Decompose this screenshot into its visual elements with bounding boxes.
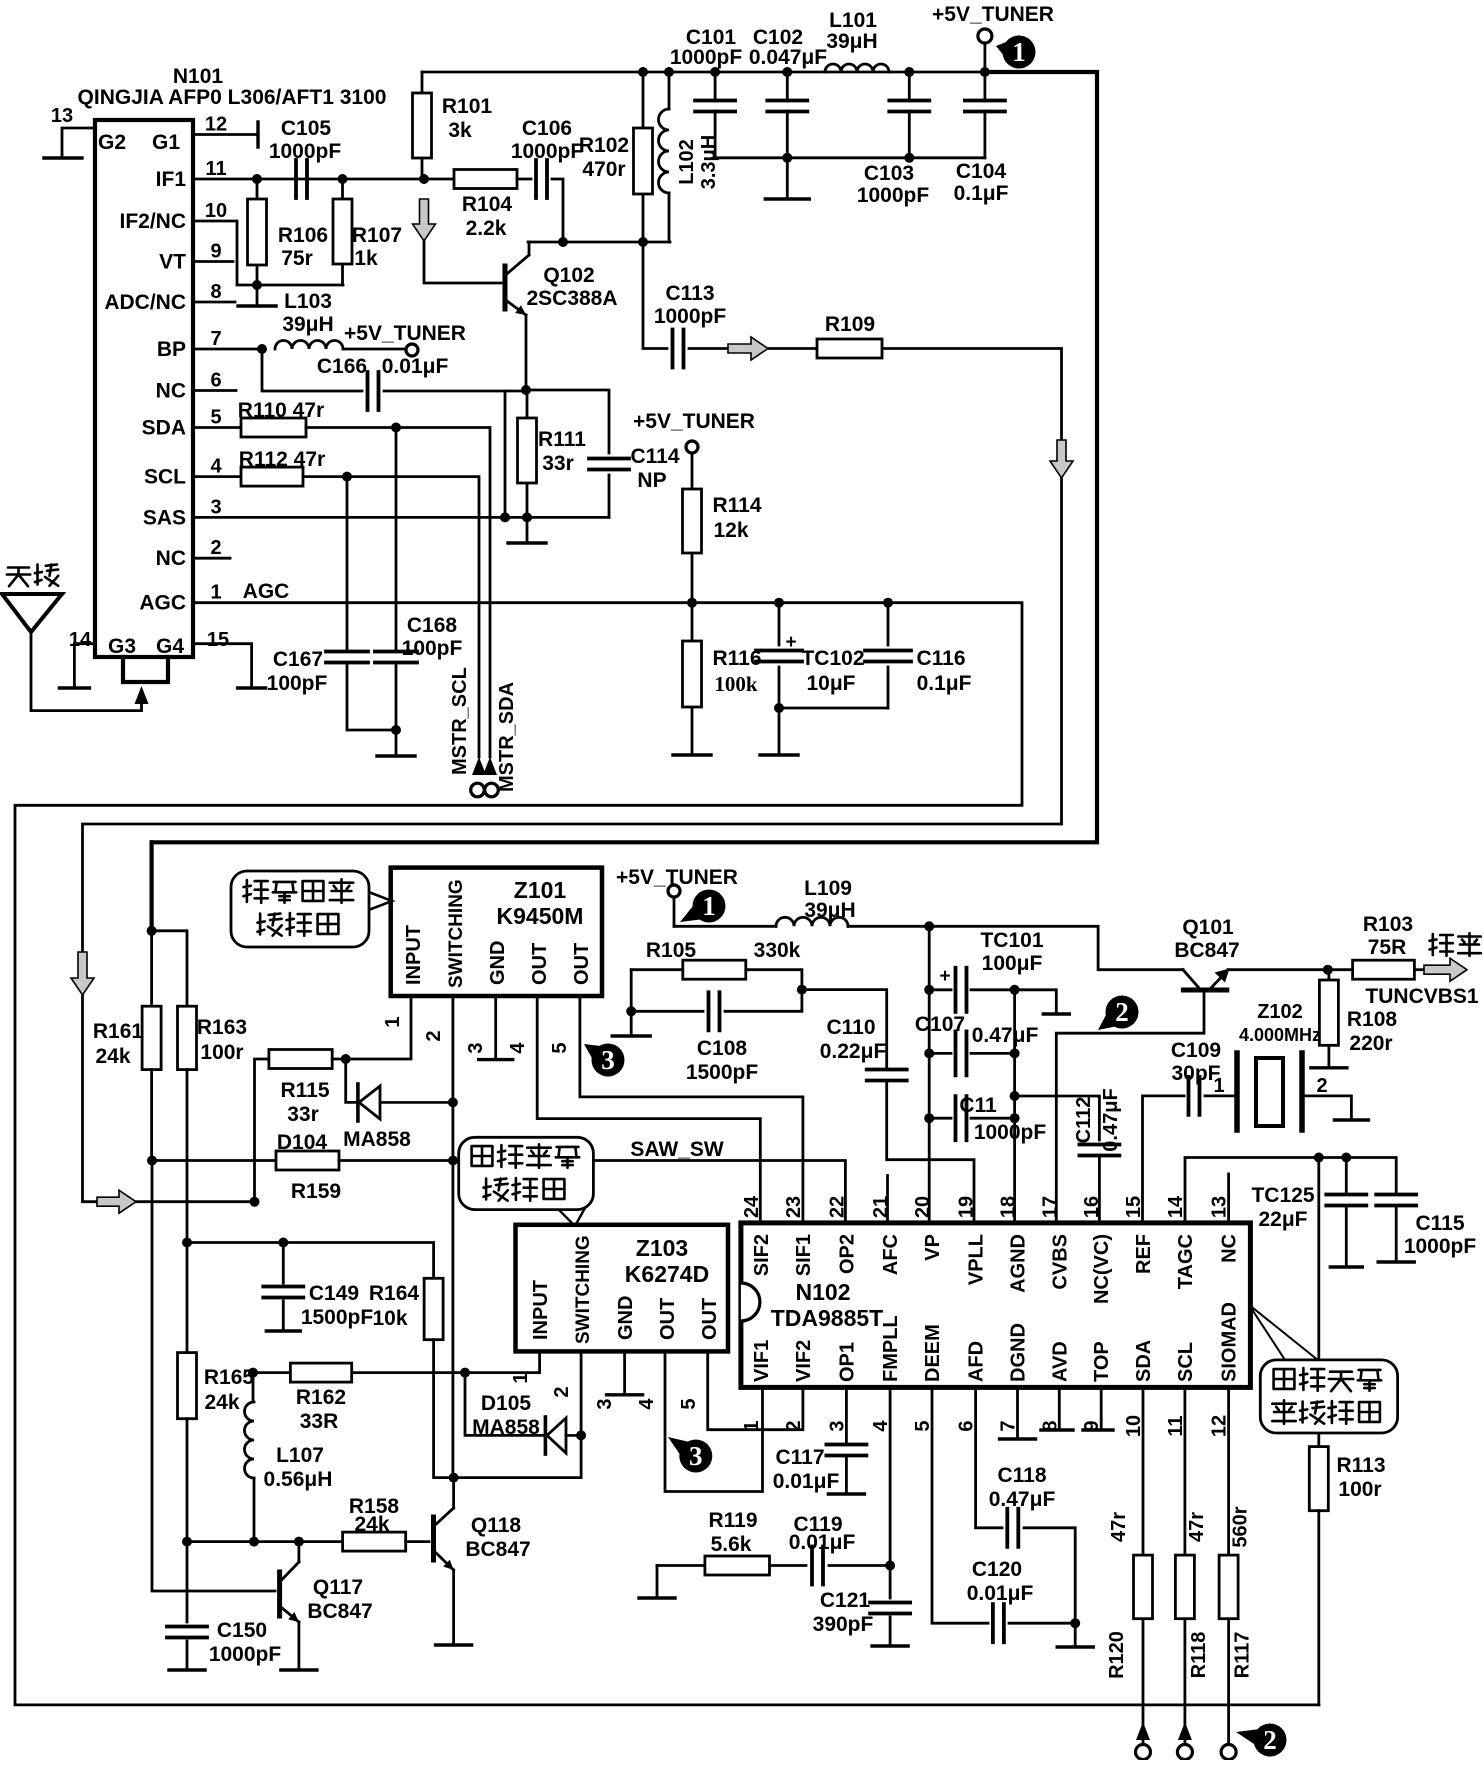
wire DGND pin7 <box>1016 1387 1019 1438</box>
svg-text:16: 16 <box>1081 1196 1103 1218</box>
wire C11 leads <box>929 1117 1014 1120</box>
node C106 branch <box>558 237 568 247</box>
svg-text:24: 24 <box>741 1195 763 1218</box>
svg-text:N102: N102 <box>796 1279 851 1305</box>
capacitor C106 <box>536 160 547 198</box>
wire to R159 <box>152 1159 276 1162</box>
svg-text:3: 3 <box>210 496 221 518</box>
wire to C112 <box>1015 1096 1100 1140</box>
svg-text:12: 12 <box>205 114 227 136</box>
node Q117 collector <box>294 1537 304 1547</box>
svg-text:0.047μF: 0.047μF <box>749 46 827 69</box>
svg-text:R118: R118 <box>1188 1632 1210 1679</box>
svg-text:OUT: OUT <box>699 1298 721 1340</box>
svg-text:5.6k: 5.6k <box>711 1533 752 1556</box>
node Q118 collector <box>449 1473 459 1483</box>
svg-text:0.47μF: 0.47μF <box>1100 1088 1122 1151</box>
wire C149 top <box>282 1243 285 1284</box>
wire pin12 <box>193 133 258 136</box>
svg-text:MSTR_SDA: MSTR_SDA <box>496 682 518 792</box>
svg-text:G4: G4 <box>156 635 184 658</box>
svg-text:19: 19 <box>956 1196 978 1218</box>
svg-text:100r: 100r <box>1338 1478 1381 1501</box>
wire Q117 collector <box>297 1542 300 1562</box>
transistor Q118 BC847 <box>434 1508 454 1570</box>
svg-text:C105: C105 <box>281 117 332 140</box>
svg-text:VPLL: VPLL <box>966 1234 988 1285</box>
svg-text:+5V_TUNER: +5V_TUNER <box>616 866 738 889</box>
wire +5V stub <box>673 897 676 926</box>
node R115/D104 diode <box>341 1054 351 1064</box>
wire SDA to MSTR_SDA <box>306 428 490 758</box>
callout bubble 伴音中频滤波器 <box>231 871 392 947</box>
wire Z101 pin2 switching net <box>451 996 454 1478</box>
svg-text:1k: 1k <box>354 247 378 270</box>
ground R116 <box>673 753 711 756</box>
resistor R113 <box>1309 1447 1328 1511</box>
node AGND-C107 <box>1010 1048 1020 1058</box>
svg-text:R117: R117 <box>1232 1632 1254 1679</box>
svg-text:1: 1 <box>1012 37 1026 67</box>
wire R109 net <box>768 349 1062 825</box>
svg-text:R109: R109 <box>825 313 875 336</box>
svg-text:8: 8 <box>210 281 221 303</box>
wire C104 leads <box>984 72 987 158</box>
crystal Z102 4.000MHz <box>1237 1053 1302 1130</box>
svg-text:47r: 47r <box>1108 1512 1130 1542</box>
video output arrow <box>1424 958 1467 981</box>
svg-text:BC847: BC847 <box>307 1600 372 1623</box>
svg-text:QINGJIA AFP0 L306/AFT1 3100: QINGJIA AFP0 L306/AFT1 3100 <box>78 86 387 109</box>
svg-text:SCL: SCL <box>144 466 186 489</box>
callout bubble 图像中频滤波器 <box>459 1137 594 1226</box>
capacitor C101 <box>695 101 735 112</box>
capacitor TC102 electrolytic <box>756 651 802 662</box>
node R103/R108 <box>1323 965 1333 975</box>
svg-text:2: 2 <box>423 1030 445 1041</box>
svg-text:15: 15 <box>207 629 229 651</box>
svg-text:9: 9 <box>210 241 221 263</box>
wire to R161 <box>150 931 153 1006</box>
svg-text:R108: R108 <box>1347 1008 1398 1031</box>
inductor L102 <box>659 109 670 193</box>
svg-text:0.47μF: 0.47μF <box>972 1024 1039 1047</box>
svg-text:10μF: 10μF <box>806 672 855 695</box>
wire pin9 VT stub <box>193 260 233 263</box>
svg-text:1000pF: 1000pF <box>974 1121 1047 1144</box>
svg-text:75R: 75R <box>1368 936 1407 959</box>
capacitor C107 <box>956 1031 967 1075</box>
svg-text:4: 4 <box>636 1398 658 1410</box>
node SAW_SW / Z101 switching <box>448 1156 458 1166</box>
ground Q117 <box>281 1668 317 1671</box>
wire to C113 <box>643 242 667 349</box>
wire R101 leads <box>421 72 424 179</box>
svg-text:R165: R165 <box>204 1366 255 1389</box>
wire to +5V terminal <box>343 348 406 351</box>
capacitor C104 <box>965 101 1005 112</box>
svg-text:Z103: Z103 <box>636 1235 688 1261</box>
svg-text:R107: R107 <box>352 224 402 247</box>
svg-text:C104: C104 <box>956 160 1007 183</box>
svg-text:C120: C120 <box>972 1558 1022 1581</box>
wire C119 to FMPLL <box>829 1564 890 1567</box>
node L107 bottom <box>249 1537 259 1547</box>
wire C102 leads <box>786 72 789 158</box>
svg-text:3: 3 <box>594 1398 616 1409</box>
svg-text:TOP: TOP <box>1091 1341 1113 1382</box>
svg-text:R113: R113 <box>1336 1454 1385 1477</box>
svg-text:17: 17 <box>1039 1196 1061 1218</box>
wire +5V branch left <box>150 842 154 931</box>
svg-text:SDA: SDA <box>1133 1340 1155 1382</box>
ground R106 node <box>238 304 276 307</box>
svg-text:AGND: AGND <box>1008 1234 1030 1293</box>
terminal bar AVD <box>1041 1428 1073 1431</box>
node SDA-C168 <box>391 423 401 433</box>
node bottom-C102 <box>782 153 792 163</box>
wire AGC routing loop <box>15 603 1319 1705</box>
ground TC101 node <box>1043 1012 1069 1015</box>
wire C110 to N102 VPLL pin19 <box>887 1082 974 1223</box>
wire filter bottom node <box>715 156 985 159</box>
wire C112 to NC(VC) pin16 <box>1098 1158 1101 1223</box>
svg-text:1: 1 <box>1213 1075 1224 1097</box>
svg-text:R112 47r: R112 47r <box>239 448 325 471</box>
svg-text:C150: C150 <box>217 1619 267 1642</box>
wire pin2 NC stub <box>193 557 230 560</box>
ground Z101 pin3 <box>479 1058 513 1061</box>
svg-text:1000pF: 1000pF <box>857 184 930 207</box>
svg-text:3: 3 <box>465 1042 487 1053</box>
resistor R110 <box>241 418 306 437</box>
svg-text:470r: 470r <box>582 158 625 181</box>
wire Z103 pin2 SWITCHING <box>454 1351 581 1477</box>
inductor L101 <box>825 64 889 72</box>
resistor R107 <box>333 199 352 264</box>
svg-text:TAGC: TAGC <box>1175 1234 1197 1289</box>
svg-text:330k: 330k <box>754 939 801 962</box>
wire Z103 pin4 to N102 VIF1 <box>665 1351 763 1491</box>
+5V_TUNER terminal <box>978 29 992 43</box>
node IF1-R106 <box>252 174 262 184</box>
svg-text:L103: L103 <box>284 290 332 313</box>
wire L109 to Q101 collector <box>848 926 1183 969</box>
svg-text:R103: R103 <box>1363 913 1413 936</box>
wire +5V to L109 <box>674 925 776 928</box>
svg-text:0.01μF: 0.01μF <box>773 1470 840 1493</box>
svg-text:14: 14 <box>69 629 92 651</box>
svg-text:AFD: AFD <box>966 1341 988 1382</box>
ground R119 <box>639 1596 675 1599</box>
wire C101 leads <box>714 72 717 158</box>
arrow into tuner input <box>135 686 149 704</box>
wire C121 bottom <box>889 1617 892 1645</box>
resistor R108 <box>1319 980 1338 1045</box>
ground R108 <box>1311 1066 1347 1069</box>
svg-text:R111: R111 <box>538 428 586 451</box>
svg-text:OP2: OP2 <box>836 1234 858 1274</box>
wire to ground <box>1074 1623 1077 1646</box>
svg-text:2: 2 <box>1115 997 1129 1027</box>
capacitor C116 <box>865 651 911 662</box>
wire R119 left <box>657 1564 705 1567</box>
wire +5V thick routing <box>152 72 1097 842</box>
svg-text:INPUT: INPUT <box>403 925 425 985</box>
svg-text:C103: C103 <box>864 162 914 185</box>
terminal R118 net <box>1177 1745 1192 1760</box>
svg-text:1: 1 <box>510 1372 532 1383</box>
node R102/C113 branch <box>638 237 648 247</box>
svg-text:2.2k: 2.2k <box>466 217 507 240</box>
wire Z103 pin3 <box>623 1351 626 1393</box>
svg-text:R101: R101 <box>442 95 493 118</box>
wire to ground <box>786 158 789 199</box>
svg-text:0.47μF: 0.47μF <box>989 1488 1056 1511</box>
signal arrow right <box>728 337 768 360</box>
node SAS-C166branch <box>500 512 510 522</box>
ground C117 <box>828 1492 864 1495</box>
wire C117 bottom <box>845 1458 848 1493</box>
capacitor TC125 <box>1326 1195 1366 1206</box>
wire C116 leads <box>887 603 890 708</box>
svg-text:3.3μH: 3.3μH <box>698 135 720 189</box>
label 视频 <box>1430 933 1481 956</box>
resistor R114 <box>683 489 702 553</box>
svg-text:Q102: Q102 <box>543 264 594 287</box>
svg-text:R106: R106 <box>278 224 328 247</box>
label 中频信号 <box>1274 1368 1382 1391</box>
svg-text:39μH: 39μH <box>282 313 333 336</box>
inductor L107 <box>245 1402 254 1478</box>
svg-text:L101: L101 <box>829 9 877 32</box>
wire R164 bottom <box>434 1340 454 1478</box>
wire C149 bottom <box>282 1301 285 1330</box>
node R161/R159 <box>147 1156 157 1166</box>
terminal bar TOP <box>1083 1428 1113 1431</box>
svg-text:Q101: Q101 <box>1182 916 1234 939</box>
wire pin13 <box>62 128 95 158</box>
svg-text:R114: R114 <box>712 494 761 517</box>
svg-text:BC847: BC847 <box>1174 939 1239 962</box>
inductor L103 <box>275 341 343 350</box>
node R105/C108 <box>797 985 807 995</box>
svg-text:1000pF: 1000pF <box>654 305 727 328</box>
node rail-R102 <box>638 67 648 77</box>
svg-text:20: 20 <box>912 1196 934 1218</box>
capacitor TC101 <box>956 968 967 1012</box>
node C118/C120 <box>1070 1618 1080 1628</box>
svg-text:C166: C166 <box>317 355 367 378</box>
resistor R111 <box>518 418 537 483</box>
svg-text:390pF: 390pF <box>813 1613 874 1636</box>
wire TC101 leads <box>929 988 1014 991</box>
wire pin15 <box>193 644 252 688</box>
wire L102 leads <box>668 72 671 242</box>
svg-text:OUT: OUT <box>529 943 551 985</box>
tuner input connector below G3/G4 <box>123 657 168 682</box>
svg-text:TDA9885T: TDA9885T <box>771 1305 883 1331</box>
svg-text:4.000MHz: 4.000MHz <box>1239 1025 1321 1045</box>
resistor R105 <box>683 960 746 979</box>
svg-text:G1: G1 <box>152 131 180 154</box>
node rail-C104 <box>980 67 990 77</box>
ground C115 <box>1378 1260 1414 1263</box>
svg-text:SAW_SW: SAW_SW <box>630 1138 724 1161</box>
svg-text:2: 2 <box>551 1386 573 1397</box>
capacitor C11 <box>956 1096 967 1140</box>
svg-text:FMPLL: FMPLL <box>880 1315 902 1382</box>
svg-text:2: 2 <box>210 537 221 559</box>
node INPUT-D105 <box>460 1368 470 1378</box>
svg-text:C106: C106 <box>522 117 572 140</box>
wire bottom node <box>779 707 888 710</box>
wire R111 leads <box>526 390 529 543</box>
node rail-L102 <box>664 67 674 77</box>
wire R119 to ground <box>656 1566 659 1598</box>
wire DEEM pin5 to C120 <box>932 1387 988 1623</box>
node FMPLL-C119 <box>885 1561 895 1571</box>
svg-text:12k: 12k <box>713 519 748 542</box>
resistor R158 <box>343 1532 406 1551</box>
svg-text:TC125: TC125 <box>1251 1184 1314 1207</box>
wire R114 leads <box>691 453 694 603</box>
capacitor C118 <box>1007 1509 1018 1547</box>
wire C167 <box>347 477 396 730</box>
net balloon 2 <box>1098 996 1139 1031</box>
svg-text:100pF: 100pF <box>267 672 328 695</box>
svg-text:GND: GND <box>615 1296 637 1340</box>
svg-text:R159: R159 <box>291 1180 341 1203</box>
svg-text:R161: R161 <box>93 1020 144 1043</box>
resistor R120 <box>1134 1555 1153 1619</box>
ground pin13 <box>44 156 82 159</box>
wire to Q117 base <box>152 1161 275 1592</box>
capacitor C119 <box>812 1547 823 1585</box>
wire R107 leads <box>341 179 344 285</box>
wire BP to C166 <box>262 349 362 391</box>
svg-text:NP: NP <box>637 469 666 492</box>
svg-text:3: 3 <box>601 1045 615 1075</box>
svg-text:Q118: Q118 <box>471 1514 522 1537</box>
svg-text:ADC/NC: ADC/NC <box>104 291 186 314</box>
terminal bar pin12 <box>256 122 259 147</box>
svg-text:39μH: 39μH <box>826 30 877 53</box>
wire OP1 pin3 to C117 <box>845 1387 848 1443</box>
wire pin14 <box>74 644 95 688</box>
svg-text:R162: R162 <box>296 1386 346 1409</box>
svg-text:C116: C116 <box>916 647 965 670</box>
capacitor C150 <box>167 1627 207 1638</box>
svg-text:C168: C168 <box>407 614 458 637</box>
wire TOP pin9 stub <box>1100 1387 1103 1429</box>
resistor R165 <box>178 1353 197 1419</box>
wire IF1 net <box>193 178 422 181</box>
svg-text:33R: 33R <box>300 1410 339 1433</box>
wire C166 to emitter node <box>384 390 526 393</box>
svg-text:75r: 75r <box>281 247 313 270</box>
arrow R120 net <box>1136 1722 1150 1740</box>
resistor R103 <box>1353 960 1415 979</box>
node C108 left <box>626 1006 636 1016</box>
svg-text:R104: R104 <box>462 193 513 216</box>
svg-text:AVD: AVD <box>1049 1341 1071 1382</box>
svg-text:OUT: OUT <box>657 1298 679 1340</box>
wire TAGC pin14 net <box>1185 1158 1396 1223</box>
wire C150 top <box>186 1542 189 1622</box>
node AGND-TC101 <box>1010 985 1020 995</box>
net balloon 3 <box>668 1437 712 1473</box>
transistor Q102 2SC388A <box>505 255 529 315</box>
resistor R102 <box>634 128 653 194</box>
svg-text:L107: L107 <box>276 1444 324 1467</box>
svg-text:BC847: BC847 <box>465 1538 530 1561</box>
resistor R161 <box>142 1006 161 1069</box>
wire Q102 emitter <box>525 315 528 390</box>
capacitor C110 <box>867 1070 907 1081</box>
svg-text:DGND: DGND <box>1008 1323 1030 1382</box>
capacitor C114 <box>589 459 629 470</box>
svg-text:24k: 24k <box>95 1045 130 1068</box>
svg-text:D104: D104 <box>277 1131 328 1154</box>
+5V_TUNER terminal R114 <box>686 441 698 453</box>
svg-text:MA858: MA858 <box>472 1416 540 1439</box>
wire antenna to G3/G4 <box>31 632 142 711</box>
svg-text:Z101: Z101 <box>514 877 567 903</box>
svg-text:SDA: SDA <box>142 417 186 440</box>
svg-text:24k: 24k <box>204 1391 239 1414</box>
svg-text:VIF1: VIF1 <box>751 1340 773 1382</box>
wire C120 right <box>1009 1622 1075 1625</box>
capacitor C120 <box>993 1604 1004 1642</box>
wire to Q102 base <box>424 241 501 283</box>
svg-text:C167: C167 <box>273 648 323 671</box>
terminal R120 net <box>1136 1745 1151 1760</box>
svg-text:1000pF: 1000pF <box>209 1643 282 1666</box>
wire R105 right <box>746 970 802 990</box>
svg-text:3: 3 <box>689 1441 703 1471</box>
wire C115 bottom <box>1395 1208 1398 1261</box>
svg-text:TC101: TC101 <box>980 929 1043 952</box>
wire L107 bottom <box>253 1478 256 1542</box>
capacitor C102 <box>767 101 807 112</box>
svg-text:1000pF: 1000pF <box>511 140 584 163</box>
svg-text:L109: L109 <box>804 877 852 900</box>
wire R165 bottom <box>186 1419 189 1542</box>
svg-text:SIF1: SIF1 <box>793 1234 815 1276</box>
resistor R106 <box>248 199 267 265</box>
svg-text:0.56μH: 0.56μH <box>264 1468 333 1491</box>
svg-text:K9450M: K9450M <box>497 903 584 929</box>
wire to C110 <box>802 990 887 1068</box>
svg-text:SWITCHING: SWITCHING <box>573 1235 594 1344</box>
wire IF1 to R104 <box>422 178 454 181</box>
wire FMPLL pin4 net <box>889 1387 892 1598</box>
svg-text:24k: 24k <box>354 1513 389 1536</box>
label 天线 <box>7 565 58 587</box>
wire R116 leads <box>691 603 694 755</box>
wire R163 bottom to R165 <box>186 1070 189 1353</box>
IF signal processor IC N102 TDA9885T box <box>741 1223 1251 1388</box>
svg-text:D105: D105 <box>481 1392 532 1415</box>
wire R113 net lower <box>1317 1433 1320 1447</box>
svg-text:10: 10 <box>205 200 227 222</box>
signal arrow down on R109 line <box>1050 440 1073 478</box>
svg-text:1: 1 <box>702 891 716 921</box>
+5V_TUNER terminal BP <box>406 344 418 356</box>
tuner IC N101 QINGJIA AFP0 L306/AFT1 3100 box <box>95 120 193 657</box>
wire SDA pin5 <box>193 426 241 429</box>
